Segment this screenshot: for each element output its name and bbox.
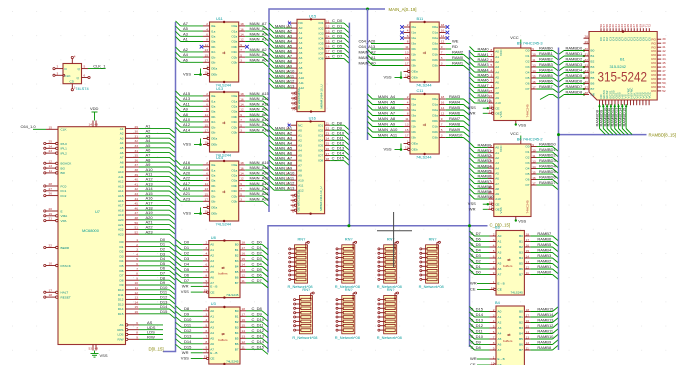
svg-text:I2a: I2a [211,174,216,178]
svg-text:I1b: I1b [412,125,417,129]
svg-text:53: 53 [89,347,93,351]
svg-text:1: 1 [493,355,495,359]
svg-text:MAIN_A5: MAIN_A5 [378,100,396,105]
svg-text:17: 17 [405,134,409,138]
svg-text:RAMB11: RAMB11 [537,329,553,334]
svg-text:O1a: O1a [432,103,438,107]
svg-text:O2a: O2a [432,36,438,40]
svg-text:28: 28 [49,182,53,186]
svg-text:16: 16 [526,243,530,247]
svg-text:9: 9 [240,113,242,117]
svg-text:10: 10 [49,262,53,266]
svg-text:I1a: I1a [412,103,417,107]
svg-text:C_D4: C_D4 [471,248,482,253]
svg-text:51: 51 [135,226,139,230]
svg-text:B4: B4 [235,331,239,335]
svg-text:D15: D15 [118,312,124,316]
svg-text:12: 12 [240,108,244,112]
svg-text:WE: WE [296,201,300,206]
svg-text:I2b: I2b [211,55,216,59]
svg-text:A14: A14 [118,189,124,193]
svg-text:R_Network*08: R_Network*08 [335,335,360,340]
svg-text:I2a: I2a [412,108,417,112]
svg-text:RAMBD0: RAMBD0 [539,142,556,147]
svg-text:O0b: O0b [231,45,237,49]
svg-text:O0b: O0b [432,119,438,123]
svg-text:MAIN_A7: MAIN_A7 [378,111,396,116]
svg-text:WR: WR [470,356,477,361]
svg-text:VCC: VCC [499,49,503,56]
svg-text:A8: A8 [495,91,499,95]
svg-text:16: 16 [526,319,530,323]
svg-text:A4: A4 [298,148,302,152]
svg-text:D10: D10 [118,288,124,292]
svg-text:WR: WR [182,350,189,355]
svg-text:D[0..15]: D[0..15] [149,346,164,351]
CPU U7 MC68000 body [58,127,126,345]
address wires MAIN_A1-A13 into U16 [269,125,295,190]
svg-text:8: 8 [490,48,492,52]
svg-text:12: 12 [242,340,246,344]
svg-text:5: 5 [493,249,495,253]
svg-text:7: 7 [205,268,207,272]
svg-text:I1b: I1b [211,120,216,124]
no-connect on U15 pin 1 [288,22,291,25]
svg-text:6: 6 [407,34,409,38]
svg-text:O3b: O3b [432,64,438,68]
svg-text:11: 11 [532,154,535,158]
svg-text:RAMB8: RAMB8 [537,345,552,350]
WR and CE wires on B4 control pins [470,356,490,365]
svg-text:O1a: O1a [231,168,237,172]
svg-text:4: 4 [490,68,492,72]
svg-text:D6: D6 [120,269,124,273]
svg-text:9: 9 [240,182,242,186]
resistor network RN4 body [420,241,441,283]
WR and VSS wires on U3 control pins [181,350,203,361]
svg-text:I2a: I2a [211,35,216,39]
svg-text:6: 6 [493,254,495,258]
svg-text:74HC245: 74HC245 [526,104,530,117]
svg-text:O6: O6 [525,82,529,86]
svg-text:17: 17 [526,238,530,242]
svg-text:RAM4: RAM4 [449,100,461,105]
svg-text:4: 4 [74,55,76,59]
output wires and labels of B3 [530,231,558,279]
svg-text:IPL0: IPL0 [61,142,68,146]
wires and labels A1-A23 from CPU to bus [139,124,170,235]
svg-text:5: 5 [240,123,242,127]
svg-text:18: 18 [49,293,53,297]
WR and VSS wires on U8 control pins [181,283,203,294]
svg-text:11: 11 [532,58,535,62]
svg-text:OEb: OEb [412,148,418,152]
svg-text:74LS74: 74LS74 [75,86,89,91]
svg-text:O0: O0 [525,145,529,149]
svg-text:B4: B4 [519,332,523,336]
svg-text:13: 13 [532,63,536,67]
svg-text:47: 47 [135,211,139,215]
svg-text:13: 13 [405,123,409,127]
svg-text:C_D14: C_D14 [252,339,265,344]
svg-text:U7: U7 [95,209,100,214]
svg-text:CE: CE [495,106,499,110]
svg-text:WE: WE [297,99,301,104]
svg-text:FC1: FC1 [61,189,67,193]
svg-text:I0b: I0b [211,184,216,188]
svg-text:4: 4 [407,29,409,33]
svg-text:20: 20 [292,107,296,111]
svg-text:O2a: O2a [432,108,438,112]
svg-text:O4: O4 [525,71,529,75]
svg-text:46: 46 [135,206,139,210]
svg-text:A0: A0 [298,128,302,132]
svg-text:IO2: IO2 [318,128,323,132]
svg-text:A10: A10 [299,76,305,80]
svg-text:A5: A5 [495,171,499,175]
svg-text:17: 17 [326,152,330,156]
svg-text:19: 19 [205,71,209,75]
svg-text:A23: A23 [183,196,191,201]
svg-text:15: 15 [526,324,530,328]
svg-text:NC: NC [299,21,304,25]
svg-text:49: 49 [95,347,99,351]
svg-text:O7: O7 [525,87,529,91]
power VSS below B6 [515,219,527,224]
buffer B4 74LS245 body and pins [490,306,531,365]
svg-text:B3: B3 [591,65,595,69]
svg-text:B3: B3 [235,259,239,263]
svg-text:IO3: IO3 [319,31,324,35]
svg-text:A8: A8 [298,168,302,172]
svg-text:WR: WR [470,281,477,286]
svg-text:14: 14 [240,33,244,37]
svg-text:I3b: I3b [211,200,216,204]
svg-text:2: 2 [205,307,207,311]
svg-text:5: 5 [441,56,443,60]
svg-text:15: 15 [242,257,246,261]
svg-text:8: 8 [205,340,207,344]
svg-text:7: 7 [493,335,495,339]
svg-text:I2b: I2b [412,130,417,134]
svg-text:I0b: I0b [412,47,417,51]
svg-text:VSS: VSS [100,353,108,358]
svg-text:6: 6 [136,321,138,325]
buffer U13 74LS244 body and pins [203,91,245,153]
svg-text:A1: A1 [120,127,124,131]
svg-text:C_D9: C_D9 [471,340,482,345]
svg-text:RAMBD5: RAMBD5 [566,73,583,78]
bus MAIN_A branch to B11/C11 [367,9,369,140]
svg-text:16: 16 [240,97,244,101]
svg-text:1: 1 [205,349,207,353]
svg-text:D12: D12 [184,328,192,333]
svg-text:I1b: I1b [412,53,417,57]
svg-text:U15: U15 [309,14,316,19]
svg-text:4: 4 [493,243,495,247]
svg-text:CLK: CLK [61,128,68,132]
svg-text:RAMB2: RAMB2 [539,57,554,62]
power VCC above B6 [510,131,521,140]
CPU strobe pins AS UDS LDS R/W with labels [117,320,163,342]
svg-text:B5: B5 [519,337,523,341]
svg-text:A10: A10 [495,197,501,201]
svg-text:RAM8: RAM8 [449,122,461,127]
svg-text:14: 14 [89,122,93,126]
bus MAIN_A[0..19] horizontal + vertical [269,9,385,212]
svg-text:2: 2 [493,232,495,236]
svg-text:1: 1 [206,65,208,69]
svg-text:13: 13 [405,51,409,55]
svg-text:VMA: VMA [61,214,69,218]
svg-text:3: 3 [441,62,443,66]
svg-text:17: 17 [532,85,536,89]
svg-text:D12: D12 [118,298,124,302]
svg-text:6: 6 [407,106,409,110]
svg-text:C_D15: C_D15 [332,156,345,161]
svg-text:IO6: IO6 [318,149,323,153]
svg-text:B3: B3 [519,326,523,330]
svg-text:RAMBD2: RAMBD2 [566,57,583,62]
svg-text:13: 13 [205,118,209,122]
svg-text:C_D15: C_D15 [252,344,265,349]
svg-text:3: 3 [493,238,495,242]
svg-text:A4: A4 [210,265,214,269]
svg-text:14: 14 [532,69,536,73]
svg-text:15: 15 [205,192,209,196]
svg-text:12: 12 [326,127,330,131]
svg-text:O6: O6 [525,178,529,182]
svg-text:B1: B1 [235,248,239,252]
svg-text:IO1: IO1 [319,21,324,25]
svg-text:5: 5 [136,257,138,261]
svg-text:WR: WR [182,283,189,288]
svg-text:5: 5 [84,65,86,69]
svg-text:OEb: OEb [211,143,217,147]
svg-text:BG: BG [61,166,66,170]
svg-text:C64_A13: C64_A13 [359,44,376,49]
svg-text:12: 12 [240,177,244,181]
svg-text:CE: CE [210,290,214,294]
svg-text:74HC245: 74HC245 [526,200,530,213]
svg-text:C_D12: C_D12 [471,323,484,328]
svg-text:C_D7: C_D7 [252,278,263,283]
svg-text:RN?: RN? [302,287,311,292]
svg-text:U3: U3 [211,301,216,306]
svg-text:D3: D3 [184,256,190,261]
svg-text:17: 17 [205,129,209,133]
svg-text:IO4: IO4 [319,36,324,40]
svg-text:D13: D13 [118,302,124,306]
buffer U8 74LS245 body and pins [203,239,246,298]
svg-text:16: 16 [240,27,244,31]
svg-text:12: 12 [242,274,246,278]
svg-text:74LS244: 74LS244 [216,222,232,227]
svg-text:D3: D3 [120,254,124,258]
svg-text:26: 26 [49,192,53,196]
svg-text:9: 9 [493,271,495,275]
svg-text:16: 16 [441,29,445,33]
VSS tie on U11 output-enable pins [183,69,202,77]
svg-text:12: 12 [526,265,530,269]
svg-text:A11: A11 [299,81,305,85]
bus entries D0-D15 into address/data bus [170,242,176,319]
svg-text:8: 8 [206,38,208,42]
svg-text:A9: A9 [298,173,302,177]
bus entries A1-A23 into address/data bus [170,129,176,240]
svg-text:VSS: VSS [181,356,189,361]
svg-text:A0: A0 [498,234,502,238]
svg-text:74LS244: 74LS244 [416,155,432,160]
data wires C_D8-C_D15 from U16 to C_D bus [330,120,349,165]
svg-text:D10: D10 [184,317,192,322]
input wires and labels of B6 [468,143,494,212]
svg-text:19: 19 [49,212,53,216]
svg-text:19: 19 [205,210,209,214]
svg-text:13: 13 [526,260,530,264]
svg-text:4: 4 [136,252,138,256]
svg-text:I3b: I3b [412,64,417,68]
svg-text:RAMB4: RAMB4 [537,248,552,253]
svg-text:D15: D15 [184,344,192,349]
svg-text:A2: A2 [210,254,214,258]
svg-text:D13: D13 [184,333,192,338]
svg-text:A14: A14 [183,127,191,132]
input wires and labels of B11 [359,25,404,65]
svg-text:24: 24 [49,144,53,148]
svg-text:B2: B2 [235,320,239,324]
svg-text:B3: B3 [495,225,500,230]
svg-text:RAM10: RAM10 [478,98,492,103]
svg-text:OEb: OEb [211,73,217,77]
svg-text:19: 19 [405,74,409,78]
svg-text:A0: A0 [210,243,214,247]
svg-text:18: 18 [489,201,493,205]
svg-text:RAMB10: RAMB10 [478,194,495,199]
svg-text:O3a: O3a [231,40,237,44]
svg-text:C_D13: C_D13 [471,318,484,323]
svg-text:7: 7 [441,51,443,55]
svg-text:O0b: O0b [432,47,438,51]
svg-text:R/W: R/W [147,334,155,339]
svg-text:DTACK: DTACK [61,264,72,268]
svg-text:72: 72 [647,24,651,28]
svg-text:74LS245: 74LS245 [511,291,524,295]
svg-text:A4: A4 [498,256,502,260]
svg-text:38: 38 [135,168,139,172]
buffer B3 74LS245 body and pins [490,231,531,296]
output wires and labels of U14 [245,160,269,206]
svg-text:A6: A6 [299,56,303,60]
svg-text:7: 7 [441,123,443,127]
svg-text:8: 8 [493,341,495,345]
svg-text:D1: D1 [184,245,190,250]
svg-text:B7: B7 [235,281,239,285]
svg-text:18: 18 [441,95,445,99]
svg-text:12: 12 [135,291,139,295]
svg-text:39: 39 [135,173,139,177]
svg-text:A2: A2 [498,321,502,325]
input wires and labels of C11 [368,94,404,138]
svg-text:RAMBD3: RAMBD3 [566,62,583,67]
svg-text:B4: B4 [495,300,501,305]
svg-text:19: 19 [491,286,495,290]
svg-text:34: 34 [585,69,589,73]
output wires and labels of C11 [446,94,470,142]
svg-text:IO8: IO8 [319,57,324,61]
svg-text:I1a: I1a [412,31,417,35]
svg-text:2: 2 [407,95,409,99]
svg-text:BGACK: BGACK [61,162,73,166]
svg-text:RAMB13: RAMB13 [537,318,554,323]
svg-text:17: 17 [326,50,330,54]
svg-text:A7: A7 [495,182,499,186]
svg-text:34: 34 [135,149,139,153]
svg-text:A11: A11 [118,175,124,179]
svg-text:D2: D2 [120,250,124,254]
svg-text:O1b: O1b [432,125,438,129]
svg-text:LDS: LDS [117,333,123,337]
svg-text:B7: B7 [235,348,239,352]
svg-text:29: 29 [585,40,589,44]
svg-text:E: E [61,209,63,213]
svg-text:27: 27 [291,204,295,208]
svg-text:A2: A2 [299,36,303,40]
bus RAMBD vertical [558,48,560,351]
svg-text:3: 3 [490,74,492,78]
svg-text:A7: A7 [298,163,302,167]
svg-text:RAM6: RAM6 [449,111,461,116]
svg-text:A5: A5 [298,153,302,157]
svg-text:I0a: I0a [211,94,216,98]
svg-text:O2a: O2a [231,105,237,109]
svg-text:B1: B1 [235,315,239,319]
svg-text:RAMBD4: RAMBD4 [539,164,556,169]
svg-text:23: 23 [49,149,53,153]
svg-text:B1: B1 [591,54,595,58]
svg-text:9: 9 [441,117,443,121]
svg-text:2: 2 [206,22,208,26]
svg-text:28: 28 [585,35,589,39]
svg-text:RAMB6: RAMB6 [537,237,552,242]
svg-text:D6: D6 [184,273,190,278]
svg-text:14: 14 [441,106,445,110]
svg-text:37: 37 [585,85,589,89]
svg-text:IO2: IO2 [319,26,324,30]
svg-text:RAM7: RAM7 [449,116,461,121]
svg-text:A8: A8 [120,160,124,164]
svg-text:D11: D11 [184,322,192,327]
svg-text:18: 18 [240,92,244,96]
svg-text:O1b: O1b [231,50,237,54]
svg-text:11: 11 [326,19,329,23]
bus C_D[0..15] [268,226,488,353]
bus C_D vertical branch to B3/B4 [469,50,471,347]
svg-text:B5: B5 [519,262,523,266]
svg-text:D4: D4 [120,259,124,263]
svg-text:RAMBD8: RAMBD8 [566,90,583,95]
svg-text:IO7: IO7 [319,52,324,56]
svg-text:I3a: I3a [412,42,417,46]
svg-text:9: 9 [441,45,443,49]
svg-text:C_D10: C_D10 [252,317,265,322]
svg-text:RN?: RN? [345,236,354,241]
svg-text:14: 14 [240,103,244,107]
svg-text:1: 1 [136,238,138,242]
svg-text:RAMB7: RAMB7 [539,84,554,89]
svg-text:14: 14 [441,34,445,38]
svg-text:A2: A2 [298,138,302,142]
